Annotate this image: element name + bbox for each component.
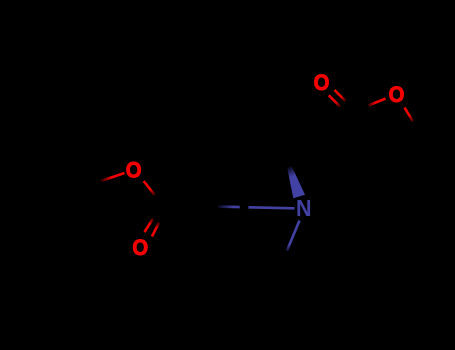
svg-text:O: O (132, 235, 148, 260)
svg-text:O: O (389, 82, 405, 107)
svg-text:N: N (296, 195, 312, 221)
svg-text:O: O (314, 70, 330, 95)
svg-text:O: O (126, 157, 142, 182)
